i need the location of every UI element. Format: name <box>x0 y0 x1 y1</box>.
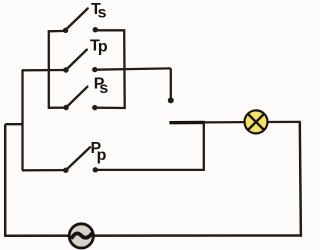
svg-text:p: p <box>97 147 107 164</box>
AC source G1 <box>69 224 93 248</box>
switch Tp blade <box>66 50 87 70</box>
wire Tp branch right segment to right corner <box>95 68 171 69</box>
right bus of switch bank <box>123 30 126 108</box>
wire bottom rail <box>5 234 301 237</box>
svg-text:s: s <box>98 5 107 22</box>
node Ts right contact <box>93 27 98 32</box>
node Tp left pivot <box>63 67 68 72</box>
wire right rail <box>300 122 301 237</box>
wire Ts branch left segment <box>48 30 66 33</box>
wire bar to lamp <box>204 121 244 124</box>
wire left rail <box>4 124 7 237</box>
node Ts left pivot <box>63 28 68 33</box>
wire bar junction down to Pp branch <box>203 124 205 171</box>
contact bar (thick) <box>169 121 204 125</box>
node Pp left pivot <box>63 168 68 173</box>
wire Ts branch right segment <box>95 29 125 31</box>
node open contact terminal <box>168 97 174 103</box>
svg-text:p: p <box>98 39 108 56</box>
switch Pp blade <box>66 147 90 170</box>
wire lamp right <box>268 121 301 123</box>
wire Ps branch right segment <box>95 107 126 110</box>
wire Tp branch left segment <box>22 69 66 72</box>
node Ps left pivot <box>63 105 68 110</box>
node Pp right contact <box>93 167 98 172</box>
wire Pp branch left segment <box>22 169 66 171</box>
node Ps right contact <box>92 105 97 110</box>
switch Ps blade <box>66 87 87 108</box>
wire Ps branch left segment <box>48 106 66 109</box>
left bus of switch bank <box>48 31 50 108</box>
wire left mid vertical <box>21 70 23 171</box>
node Tp right contact <box>92 67 97 72</box>
wire Pp branch right segment <box>95 169 205 171</box>
switch Ts blade <box>66 9 88 30</box>
svg-text:s: s <box>99 80 108 97</box>
wire right drop from Tp level to open contact <box>170 68 172 100</box>
wire stub to left rail <box>5 123 23 125</box>
lamp L1 <box>245 110 268 133</box>
